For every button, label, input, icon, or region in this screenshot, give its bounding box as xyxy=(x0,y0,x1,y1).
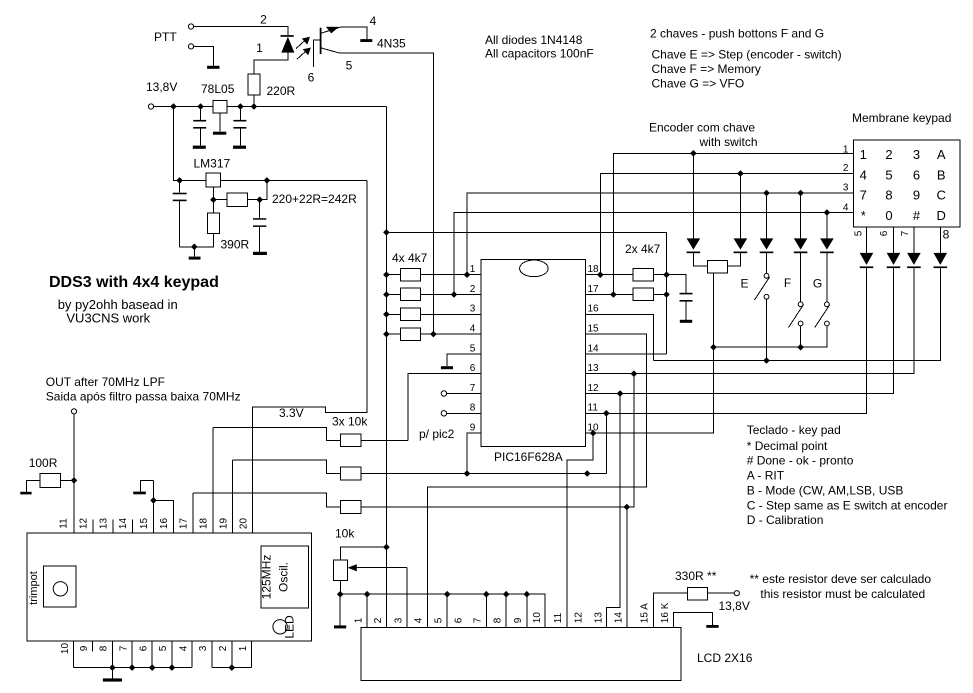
svg-text:3x 10k: 3x 10k xyxy=(332,415,368,429)
svg-text:1: 1 xyxy=(256,41,263,55)
svg-text:D: D xyxy=(937,208,946,223)
svg-text:DDS3 with 4x4 keypad: DDS3 with 4x4 keypad xyxy=(49,274,219,291)
ground C5 bar xyxy=(680,320,692,323)
svg-text:8: 8 xyxy=(99,645,110,651)
svg-text:20: 20 xyxy=(238,518,249,530)
junction R13 PIC pin9 xyxy=(464,470,471,477)
wire DDS gnd drop xyxy=(111,668,113,679)
keypad box xyxy=(854,140,961,227)
wire PTT-2 to ground xyxy=(194,46,214,65)
wire LCD pin 14 drop xyxy=(626,507,628,628)
diode D2 lead xyxy=(693,153,707,265)
svg-text:7: 7 xyxy=(118,645,129,651)
wire OUT to DDS pin 11 xyxy=(73,414,75,533)
LCD box xyxy=(361,628,681,681)
ground PIC pin 5 xyxy=(441,366,453,369)
svg-text:14: 14 xyxy=(588,343,600,354)
wire gnd drop xyxy=(193,247,195,257)
junction R5 +5 xyxy=(663,271,670,278)
wire keypad row 4 to PIC pin 2 xyxy=(454,213,854,295)
junction switch F common xyxy=(797,344,804,351)
wire switch E bottom to line C xyxy=(766,299,768,360)
wire LED to 220R (pin 1) xyxy=(254,53,288,75)
resistor R14 10k xyxy=(340,501,361,514)
op IC PIC16F628A body U1 xyxy=(481,260,586,447)
junction keypad row3 D5 xyxy=(797,190,804,197)
svg-text:78L05: 78L05 xyxy=(201,82,235,96)
wire PIC pin 17 row xyxy=(585,294,666,296)
wire 3.3V feed to DDS pin 20 xyxy=(253,180,367,533)
resistor R5 4k7 xyxy=(633,268,654,281)
wire keypad row 1 to PIC pin 17 xyxy=(613,153,853,294)
transistor emitter slant xyxy=(322,48,341,53)
svg-text:3: 3 xyxy=(470,304,476,315)
wire 242R left lead xyxy=(213,199,226,201)
junction bus LCD7 xyxy=(483,591,490,598)
ground C4 bar xyxy=(253,252,267,255)
capacitor C2 lead xyxy=(239,107,241,146)
terminal 13,8V LCD xyxy=(734,591,739,596)
svg-text:5: 5 xyxy=(885,167,892,182)
wire keypad row 3 to PIC pin 1 xyxy=(467,193,854,275)
svg-text:100R: 100R xyxy=(29,456,58,470)
svg-text:C: C xyxy=(937,187,946,202)
wire R13 right lead to PIC pin 11 net xyxy=(361,473,606,475)
svg-text:Chave G => VFO: Chave G => VFO xyxy=(652,77,745,91)
svg-text:this resistor must be calculat: this resistor must be calculated xyxy=(760,587,925,601)
resistor R6 4k7 xyxy=(633,288,654,301)
svg-text:Encoder com chave: Encoder com chave xyxy=(649,121,755,135)
wire 390R bottom to gnd net xyxy=(180,234,214,247)
wire pot top from +5 xyxy=(341,547,387,560)
regulator LM317 xyxy=(206,173,221,187)
wire keypad row 2 to PIC pin 18 xyxy=(600,174,853,275)
wire PIC pin 11 to keypad col 5 xyxy=(585,268,866,413)
svg-text:1: 1 xyxy=(354,617,365,623)
svg-text:16: 16 xyxy=(588,304,600,315)
svg-text:1: 1 xyxy=(238,645,249,651)
svg-text:12: 12 xyxy=(79,518,90,530)
wire R1 leads / PIC pin 1 xyxy=(386,274,480,276)
svg-text:15: 15 xyxy=(139,518,150,530)
diode D4 xyxy=(760,238,774,249)
switch E lever xyxy=(755,277,770,300)
wire PIC pin 18 row xyxy=(585,274,666,276)
ground C2 xyxy=(233,146,246,149)
svg-text:** este resistor deve ser calc: ** este resistor deve ser calculado xyxy=(750,572,932,586)
wire PIC pin 14 row xyxy=(585,353,666,355)
svg-text:LCD 2X16: LCD 2X16 xyxy=(697,651,753,665)
diode D6 lead xyxy=(826,213,828,302)
svg-text:11: 11 xyxy=(59,518,70,529)
capacitor C3 plates xyxy=(173,193,187,195)
wire PIC pin 13 to keypad col 7 xyxy=(585,268,914,374)
resistor 220R xyxy=(248,74,260,95)
junction keypad row4 D6 xyxy=(824,209,831,216)
wire PIC pin 12 to keypad col 6 xyxy=(585,268,893,394)
capacitor C3 lead xyxy=(179,180,181,246)
resistor R15 330R xyxy=(687,587,707,600)
diode D5 lead xyxy=(800,193,802,302)
svg-text:18: 18 xyxy=(588,264,600,275)
diode D9 keypad col 7 lead xyxy=(913,227,915,374)
resistor R7 100R xyxy=(40,473,60,487)
diode D8 keypad col 6 lead xyxy=(893,227,895,393)
junction keypad row2 D3 xyxy=(737,170,744,177)
wire PIC pin 10 row to encoder common xyxy=(585,347,713,433)
svg-text:PIC16F628A: PIC16F628A xyxy=(494,450,563,464)
wire pot bottom to gnd bus xyxy=(340,580,342,594)
wire DDS pin 18 to R12 xyxy=(213,427,340,440)
svg-text:E: E xyxy=(740,277,748,291)
junction DDS bus pin5 xyxy=(169,664,176,671)
wire PIC pin 13 jog to LCD pin 14 net xyxy=(627,374,634,507)
ground 78L05 xyxy=(213,132,226,135)
svg-text:D - Calibration: D - Calibration xyxy=(747,513,824,527)
junction bus LCD8 xyxy=(503,591,510,598)
svg-text:LED: LED xyxy=(283,615,297,639)
svg-text:5: 5 xyxy=(470,343,476,354)
junction R6 +5 xyxy=(663,291,670,298)
terminal PIC pin 8 xyxy=(441,411,446,416)
terminal PIC pin 7 xyxy=(441,391,446,396)
regulator 78L05 xyxy=(213,101,227,114)
wire PIC pin 5 to ground xyxy=(447,354,481,366)
diode D10 keypad col 8 lead xyxy=(939,227,941,360)
svg-text:5: 5 xyxy=(434,617,445,623)
junction 242R out cap xyxy=(256,196,263,203)
svg-text:3: 3 xyxy=(843,183,849,194)
junction DDS bus pin8 xyxy=(109,664,116,671)
wire LCD pin 16 to ground xyxy=(674,613,713,628)
trimpot circle xyxy=(53,582,67,596)
svg-text:p/ pic2: p/ pic2 xyxy=(419,427,455,441)
wire +5V bus vertical xyxy=(385,107,387,628)
junction keypad row1 D2 xyxy=(690,150,697,157)
junction R14 LCD14 xyxy=(624,504,631,511)
wire DDS pin 15/16 to ground xyxy=(141,480,174,533)
transistor Q1 base bar xyxy=(320,28,322,54)
svg-text:# Done - ok - pronto: # Done - ok - pronto xyxy=(747,454,854,468)
wire line A switch commons xyxy=(714,326,827,347)
potentiometer RV1 10k xyxy=(334,560,348,580)
svg-text:2: 2 xyxy=(843,163,849,174)
capacitor C5 lead from +5 xyxy=(667,275,687,320)
svg-text:trimpot: trimpot xyxy=(28,571,40,605)
svg-text:8: 8 xyxy=(885,187,892,202)
wire R2 leads / PIC pin 2 xyxy=(386,294,480,296)
wire DDS pin 18 stub xyxy=(212,427,214,533)
svg-text:14: 14 xyxy=(118,518,129,530)
ground DDS 15/16 xyxy=(133,492,146,495)
wire PTT-1 to opto LED anode (pin 2) xyxy=(194,27,288,36)
ground pin 4 xyxy=(360,39,372,42)
junction +5V R4 xyxy=(383,331,390,338)
junction PIC pin18 xyxy=(597,271,604,278)
junction +5V pot xyxy=(383,544,390,551)
svg-text:2: 2 xyxy=(373,617,384,623)
svg-text:15: 15 xyxy=(588,324,600,335)
svg-text:12: 12 xyxy=(588,383,600,394)
junction LM317 out xyxy=(264,177,271,184)
svg-text:9: 9 xyxy=(913,187,920,202)
wire DDS bottom right bus xyxy=(212,667,252,669)
DDS module box xyxy=(27,533,312,641)
svg-text:4x 4k7: 4x 4k7 xyxy=(392,251,428,265)
svg-text:6: 6 xyxy=(913,167,920,182)
svg-text:2: 2 xyxy=(218,645,229,651)
svg-text:Teclado - key pad: Teclado - key pad xyxy=(747,423,841,437)
wire switch F bottom xyxy=(800,326,802,347)
svg-text:2: 2 xyxy=(885,147,892,162)
wire R4 leads / PIC pin 4 xyxy=(386,333,480,335)
svg-text:8: 8 xyxy=(943,228,950,242)
junction switch E line C xyxy=(763,357,770,364)
svg-text:A: A xyxy=(937,147,946,162)
svg-text:4: 4 xyxy=(843,202,849,213)
svg-text:3: 3 xyxy=(198,645,209,651)
svg-text:4: 4 xyxy=(370,14,377,28)
wire LM317 output xyxy=(221,179,367,181)
svg-text:Chave E => Step (encoder - swi: Chave E => Step (encoder - switch) xyxy=(652,48,842,62)
junction PIC pin1 xyxy=(464,271,471,278)
wire collector to pin 4 bar xyxy=(340,27,366,39)
svg-text:6: 6 xyxy=(453,617,464,623)
wire DDS pin 19 stub xyxy=(232,460,234,533)
svg-text:All capacitors 100nF: All capacitors 100nF xyxy=(485,47,594,61)
wire +5V branch to PIC pin 14 xyxy=(386,232,666,354)
ground C1 xyxy=(193,146,206,149)
junction DDS pin15/16 xyxy=(150,497,157,504)
wire 100R right lead xyxy=(60,479,74,481)
svg-text:15 A: 15 A xyxy=(639,603,650,623)
wire gnd bus left drop xyxy=(339,594,341,625)
junction PIC pin13 xyxy=(631,370,638,377)
svg-text:10: 10 xyxy=(532,612,543,624)
junction +5V R2 xyxy=(383,291,390,298)
svg-text:4N35: 4N35 xyxy=(377,37,406,51)
trimpot box xyxy=(44,566,77,607)
junction PIC pin2 xyxy=(451,291,458,298)
svg-text:10: 10 xyxy=(60,643,71,655)
opto LED cathode bar xyxy=(281,35,294,37)
opto LED triangle D1 xyxy=(281,37,294,53)
diode D4 lead xyxy=(766,193,768,273)
svg-text:19: 19 xyxy=(218,518,229,530)
capacitor C2 plates xyxy=(233,120,246,122)
wire PIC pin 7 xyxy=(447,393,481,395)
ground DDS xyxy=(103,678,122,681)
junction R13 LCD12 xyxy=(584,470,591,477)
wire 13,8V rail into 78L05 xyxy=(154,106,214,108)
diode D7 xyxy=(860,253,874,265)
switch G lever xyxy=(815,305,830,328)
diode D7 keypad col 5 lead xyxy=(866,227,868,413)
svg-text:B: B xyxy=(937,167,946,182)
wire pot wiper to LCD pin 3 xyxy=(406,568,408,628)
switch G contacts xyxy=(825,302,830,307)
junction +5V branch xyxy=(383,229,390,236)
wire PIC pin 12 down to LCD pin 13 xyxy=(607,394,621,628)
junction DDS bus pin6 xyxy=(149,664,156,671)
ground PTT xyxy=(207,66,219,69)
wire 5V rail from 78L05 xyxy=(227,106,387,108)
junction PIC pin17 xyxy=(610,291,617,298)
diode D9 xyxy=(907,253,921,265)
wire PIC pin 10 branch to LCD pin 11 xyxy=(567,433,593,627)
transistor collector arrowhead xyxy=(326,27,339,34)
diode D3 lead xyxy=(727,174,740,266)
transistor collector slant xyxy=(322,27,341,33)
junction bus LCD9 xyxy=(524,591,531,598)
svg-text:9: 9 xyxy=(513,617,524,623)
junction bus gnd left xyxy=(337,591,344,598)
wire DDS pin 17 to R14 xyxy=(193,493,340,507)
svg-text:F: F xyxy=(784,276,791,290)
svg-text:6: 6 xyxy=(470,363,476,374)
svg-text:0: 0 xyxy=(885,208,892,223)
svg-text:16: 16 xyxy=(159,518,170,530)
light arrow 1 xyxy=(296,40,306,49)
wire R12 right lead to PIC pin 6 xyxy=(361,439,408,441)
svg-text:220R: 220R xyxy=(267,84,296,98)
ground 100R xyxy=(20,492,31,495)
svg-text:3: 3 xyxy=(913,147,920,162)
wire PIC pin 15 to LCD pin 4 xyxy=(427,334,646,627)
LED circle xyxy=(273,620,287,634)
wire PIC pin 11 down to 10k net xyxy=(605,413,607,473)
svg-text:7: 7 xyxy=(473,617,484,623)
resistor R2 4k7 xyxy=(401,288,421,301)
resistor 242R xyxy=(227,193,248,206)
svg-text:PTT: PTT xyxy=(154,30,177,44)
wire 100R left lead to gnd xyxy=(27,480,41,491)
capacitor C1 lead xyxy=(200,107,202,146)
capacitor C1 plates xyxy=(193,120,206,122)
wire LCD pin 15 to 330R xyxy=(654,593,688,627)
svg-text:220+22R=242R: 220+22R=242R xyxy=(272,192,357,206)
resistor R4 4k7 xyxy=(401,328,421,341)
switch F contacts xyxy=(798,302,803,307)
wire LCD ground bus xyxy=(340,594,545,627)
oscillator box xyxy=(261,546,309,608)
diode D3 xyxy=(734,238,748,249)
terminal PTT-2 xyxy=(188,44,193,49)
svg-text:4: 4 xyxy=(414,617,425,623)
junction DDS bus pin2 xyxy=(229,664,236,671)
junction keypad row3 D4 xyxy=(763,190,770,197)
terminal 13,8V xyxy=(148,104,153,109)
wire DDS pin 19 to R13 xyxy=(233,460,341,474)
resistor R1 4k7 xyxy=(401,268,421,281)
svg-text:9: 9 xyxy=(79,645,90,651)
diode D6 xyxy=(820,238,834,249)
terminal PTT-1 xyxy=(188,24,193,29)
svg-text:390R: 390R xyxy=(221,238,250,252)
svg-text:*: * xyxy=(861,208,866,223)
svg-text:11: 11 xyxy=(553,612,564,623)
svg-text:330R **: 330R ** xyxy=(675,569,717,583)
diode D10 xyxy=(934,253,948,265)
svg-text:2x 4k7: 2x 4k7 xyxy=(625,242,661,256)
svg-text:8: 8 xyxy=(493,617,504,623)
encoder body xyxy=(708,260,728,272)
svg-text:* Decimal point: * Decimal point xyxy=(747,439,828,453)
svg-text:#: # xyxy=(913,208,921,223)
svg-text:6: 6 xyxy=(308,71,315,85)
wire PIC pin 9 down to LCD line xyxy=(467,433,481,473)
svg-text:4: 4 xyxy=(470,324,476,335)
wire PIC pin 6 to 10k R12 xyxy=(408,374,481,441)
svg-text:4: 4 xyxy=(178,645,189,651)
ground LM317 net xyxy=(189,257,201,260)
svg-text:LM317: LM317 xyxy=(194,157,231,171)
DDS bottom pin stubs xyxy=(74,641,252,668)
svg-text:2: 2 xyxy=(470,284,476,295)
svg-text:10k: 10k xyxy=(335,527,355,541)
svg-text:Membrane keypad: Membrane keypad xyxy=(852,111,951,125)
svg-text:12: 12 xyxy=(574,612,585,624)
wire gnd bus stubs to LCD pins 1 5 7 8 9 xyxy=(367,594,527,627)
svg-text:VU3CNS work: VU3CNS work xyxy=(66,311,150,326)
switch E contacts xyxy=(764,273,769,278)
svg-text:125MHz: 125MHz xyxy=(260,555,274,600)
junction PIC pin10 xyxy=(590,430,597,437)
resistor R3 4k7 xyxy=(401,308,421,321)
wire R3 leads / PIC pin 3 xyxy=(386,313,480,315)
diode D8 xyxy=(887,253,901,265)
junction +5V R3 xyxy=(383,311,390,318)
wire DDS bottom left bus xyxy=(74,667,193,669)
svg-text:OUT after 70MHz LPF: OUT after 70MHz LPF xyxy=(46,375,165,389)
svg-text:7: 7 xyxy=(900,230,911,236)
svg-text:17: 17 xyxy=(179,518,190,530)
svg-text:13,8V: 13,8V xyxy=(146,80,177,94)
svg-text:5: 5 xyxy=(158,645,169,651)
svg-text:5: 5 xyxy=(854,230,865,236)
wire 330R to 13,8V terminal xyxy=(707,592,734,594)
terminal OUT xyxy=(71,409,76,414)
junction bus LCD5 xyxy=(444,591,451,598)
capacitor C5 plates xyxy=(680,293,693,295)
wire PIC pin 16 to keypad col 8 (line C) xyxy=(585,268,940,361)
svg-text:13,8V: 13,8V xyxy=(719,599,750,613)
svg-text:6: 6 xyxy=(139,645,150,651)
svg-text:11: 11 xyxy=(588,403,599,414)
junction PIC pin4 xyxy=(430,331,437,338)
svg-text:5: 5 xyxy=(346,59,353,73)
light arrow 2 xyxy=(297,51,307,60)
svg-text:6: 6 xyxy=(879,230,890,236)
capacitor C4 lead xyxy=(259,200,261,252)
svg-text:C - Step same as E switch at: C - Step same as E switch at encoder xyxy=(747,498,948,512)
svg-text:1: 1 xyxy=(470,264,476,275)
svg-text:18: 18 xyxy=(199,518,210,530)
switch F lever xyxy=(789,305,804,328)
wire 220R to rail xyxy=(253,95,255,107)
svg-text:16 K: 16 K xyxy=(660,602,671,623)
svg-text:3.3V: 3.3V xyxy=(279,406,304,420)
svg-text:Saida após filtro passa baixa: Saida após filtro passa baixa 70MHz xyxy=(46,390,241,404)
junction +5V R1 xyxy=(383,271,390,278)
junction LM317 gnd xyxy=(191,244,198,251)
diode D5 xyxy=(794,238,808,249)
svg-text:13: 13 xyxy=(99,518,110,530)
wire R14 right lead to LCD pin 14 net xyxy=(361,506,627,508)
U1 notch xyxy=(520,260,549,277)
svg-text:A - RIT: A - RIT xyxy=(747,468,785,482)
svg-text:7: 7 xyxy=(860,187,867,202)
